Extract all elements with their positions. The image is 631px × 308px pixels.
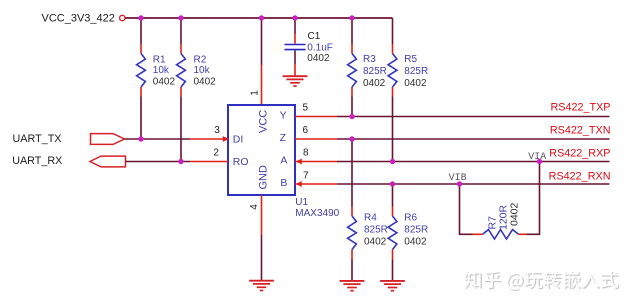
svg-text:RS422_RXP: RS422_RXP bbox=[549, 147, 610, 159]
pin 6 Z stub bbox=[295, 125, 337, 139]
wire C1 to ground bbox=[294, 50, 296, 76]
svg-text:825R: 825R bbox=[364, 225, 388, 236]
wire VCC pin branch vertical bbox=[261, 18, 263, 65]
resistor R4 bbox=[348, 207, 388, 260]
svg-text:1: 1 bbox=[250, 90, 261, 96]
junction dots on power rail bbox=[138, 15, 354, 20]
resistor R7 bbox=[473, 202, 528, 239]
wire net RS422_RXP bbox=[337, 161, 610, 163]
junction VIA/RXP bbox=[537, 159, 542, 164]
pin 4 GND stub bbox=[249, 195, 261, 235]
pin 1 VCC stub bbox=[250, 65, 262, 106]
svg-text:UART_TX: UART_TX bbox=[13, 133, 62, 145]
ground below R4 bbox=[340, 281, 365, 291]
wire R6 branch vertical bbox=[392, 184, 394, 281]
svg-text:UART_RX: UART_RX bbox=[12, 155, 62, 167]
ground below U1 bbox=[249, 281, 274, 291]
svg-text:R1: R1 bbox=[153, 54, 166, 65]
svg-text:U1: U1 bbox=[295, 197, 308, 208]
ground below R6 bbox=[380, 281, 405, 291]
pin 2 RO stub bbox=[190, 148, 228, 162]
svg-text:R6: R6 bbox=[404, 213, 417, 224]
wire R5 branch vertical (from rail corner) bbox=[392, 18, 394, 162]
wire GND pin to ground bbox=[261, 235, 263, 281]
svg-text:VCC: VCC bbox=[257, 110, 269, 133]
junction R1/UART_TX bbox=[138, 136, 143, 141]
svg-text:0402: 0402 bbox=[194, 77, 217, 88]
svg-text:825R: 825R bbox=[363, 66, 387, 77]
svg-text:0402: 0402 bbox=[404, 78, 427, 89]
wire C1 branch vertical bbox=[294, 18, 296, 44]
ground below C1 bbox=[283, 76, 308, 86]
svg-text:10k: 10k bbox=[153, 65, 170, 76]
svg-text:GND: GND bbox=[257, 165, 269, 190]
resistor R3 bbox=[348, 44, 387, 97]
svg-text:7: 7 bbox=[303, 170, 309, 181]
svg-text:A: A bbox=[280, 154, 287, 166]
svg-text:RO: RO bbox=[233, 156, 249, 168]
watermark zhihu bbox=[464, 270, 619, 291]
svg-text:825R: 825R bbox=[404, 225, 428, 236]
resistor R5 bbox=[388, 44, 428, 97]
svg-text:RS422_TXP: RS422_TXP bbox=[550, 101, 610, 113]
wire UART_TX to DI bbox=[125, 138, 191, 140]
wire VIA branch (RXP to R7 right) bbox=[527, 162, 540, 235]
junction R3/TXP bbox=[349, 114, 354, 119]
svg-text:3: 3 bbox=[214, 125, 220, 136]
svg-text:825R: 825R bbox=[404, 66, 428, 77]
wire R1 branch vertical bbox=[140, 18, 142, 139]
svg-text:0402: 0402 bbox=[153, 77, 176, 88]
junction R2/UART_RX bbox=[178, 159, 183, 164]
pin 7 B stub with input arrow bbox=[295, 170, 337, 187]
svg-text:MAX3490: MAX3490 bbox=[295, 208, 339, 219]
junction R5/RXP bbox=[390, 159, 395, 164]
junction VIB/RXN bbox=[457, 181, 462, 186]
node VIB label bbox=[449, 173, 467, 184]
junction R4/TXN bbox=[349, 136, 354, 141]
wire net RS422_TXP bbox=[337, 116, 610, 118]
svg-text:Y: Y bbox=[280, 109, 287, 121]
node RS422_RXN label bbox=[549, 170, 611, 182]
svg-text:Z: Z bbox=[280, 132, 287, 144]
svg-text:R2: R2 bbox=[194, 54, 207, 65]
svg-text:R3: R3 bbox=[363, 54, 376, 65]
resistor R2 bbox=[177, 44, 217, 97]
pin 8 A stub with input arrow bbox=[295, 148, 337, 165]
node VIA label bbox=[528, 152, 546, 163]
wire UART_RX to RO bbox=[126, 161, 191, 163]
port UART_TX bbox=[13, 133, 125, 145]
capacitor C1 bbox=[285, 31, 333, 64]
svg-text:0402: 0402 bbox=[364, 237, 387, 248]
svg-text:10k: 10k bbox=[194, 65, 211, 76]
svg-text:5: 5 bbox=[303, 102, 309, 113]
svg-text:B: B bbox=[280, 177, 287, 189]
node RS422_TXP label bbox=[550, 101, 610, 113]
wire net RS422_TXN bbox=[337, 138, 610, 140]
node VCC_3V3_422 open-circle terminal bbox=[120, 15, 125, 20]
wire R3 branch vertical bbox=[351, 18, 353, 117]
svg-text:R5: R5 bbox=[404, 54, 417, 65]
svg-text:8: 8 bbox=[303, 148, 309, 159]
svg-text:2: 2 bbox=[213, 148, 219, 159]
svg-text:C1: C1 bbox=[308, 31, 321, 42]
wire power rail horizontal bbox=[125, 17, 392, 19]
svg-text:4: 4 bbox=[249, 204, 260, 210]
node RS422_RXP label bbox=[549, 147, 610, 159]
port UART_RX bbox=[12, 155, 125, 167]
svg-text:6: 6 bbox=[303, 125, 309, 136]
resistor R6 bbox=[388, 207, 428, 260]
svg-text:RS422_RXN: RS422_RXN bbox=[549, 170, 611, 182]
svg-text:0402: 0402 bbox=[509, 202, 521, 226]
svg-text:VCC_3V3_422: VCC_3V3_422 bbox=[42, 12, 115, 24]
svg-text:RS422_TXN: RS422_TXN bbox=[550, 124, 611, 136]
svg-text:0.1uF: 0.1uF bbox=[307, 42, 333, 53]
svg-text:R4: R4 bbox=[364, 213, 377, 224]
wire R2 branch vertical bbox=[180, 18, 182, 162]
svg-text:0402: 0402 bbox=[404, 237, 427, 248]
svg-text:0402: 0402 bbox=[307, 53, 330, 64]
wire VIB branch (RXN to R7 left) bbox=[460, 184, 473, 234]
pin 3 DI stub with input arrow bbox=[190, 125, 229, 142]
node RS422_TXN label bbox=[550, 124, 611, 136]
svg-text:DI: DI bbox=[233, 133, 244, 145]
junction R6/RXN bbox=[390, 181, 395, 186]
node VCC_3V3_422 power label bbox=[42, 12, 115, 24]
wire R4 branch vertical bbox=[351, 139, 353, 281]
pin 5 Y stub bbox=[295, 102, 337, 116]
op-amp U1 MAX3490 body bbox=[228, 105, 340, 219]
svg-text:0402: 0402 bbox=[363, 78, 386, 89]
resistor R1 bbox=[137, 44, 176, 97]
wire net RS422_RXN bbox=[337, 183, 610, 185]
